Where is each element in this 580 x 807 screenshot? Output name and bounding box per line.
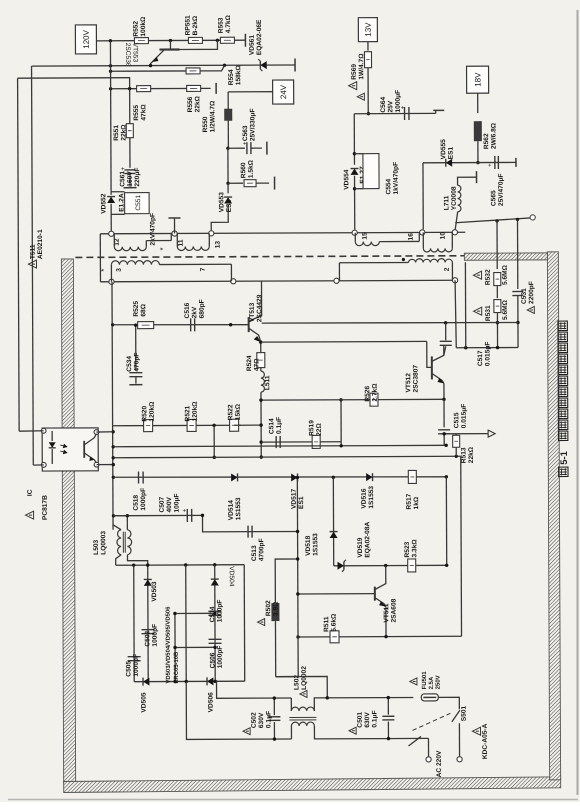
label IC PC817B — [25, 511, 33, 519]
svg-text:16: 16 — [408, 233, 415, 241]
svg-text:7: 7 — [200, 267, 207, 271]
pin 2 — [452, 278, 457, 283]
wire bridge rail VD504 — [214, 565, 217, 681]
resistor R562 fusible — [477, 93, 479, 113]
wire R502 feed — [275, 559, 298, 602]
node box 24V — [273, 80, 294, 104]
svg-text:VD505: VD505 — [141, 692, 148, 713]
resistor R531 startup — [496, 286, 498, 298]
wire R517 to R523 vertical — [445, 477, 447, 565]
wire fuse to switch corner — [438, 697, 459, 709]
wire feedback vertical left A — [32, 66, 34, 465]
wire R560 row — [227, 148, 229, 183]
wire VD555 to pin 16 — [422, 163, 424, 230]
diode VD506 — [207, 677, 213, 685]
wire 24V to R550 — [228, 91, 272, 93]
svg-text:13: 13 — [215, 241, 222, 249]
wire base net down — [297, 594, 299, 637]
svg-text:S501: S501 — [461, 705, 468, 721]
wire R502 link — [297, 637, 299, 677]
wire bridge box left edge — [185, 565, 188, 681]
winding 16-10 — [422, 232, 424, 248]
resistor R522 — [230, 419, 239, 431]
optocoupler IC PC817B — [42, 428, 98, 471]
svg-text:VD554: VD554 — [343, 169, 350, 190]
capacitor C505 — [128, 656, 141, 658]
resistor R520 — [144, 420, 153, 432]
switch S501 right pole — [452, 710, 460, 722]
wire divider drop — [213, 425, 215, 457]
arrow out — [488, 430, 495, 437]
wire opto-base vertical — [296, 477, 299, 593]
diode VD519 — [338, 562, 344, 570]
svg-text:C551: C551 — [135, 195, 142, 211]
wire secondary ground row — [456, 347, 518, 349]
switch linkage dashed — [412, 713, 450, 730]
svg-text:KDC-A05-A: KDC-A05-A — [482, 723, 489, 759]
wire VD519 row — [334, 564, 447, 566]
pin 16 — [420, 230, 425, 235]
wire bridge rail VD503 — [147, 571, 149, 682]
wire AC bottom line — [186, 681, 291, 739]
wire R513 row with arrow — [444, 433, 488, 435]
wire feedback line lower — [18, 78, 130, 89]
svg-text:R5023.9Ω: R5023.9Ω — [265, 600, 279, 616]
winding 3-7 primary — [110, 265, 112, 282]
winding 1-2 — [402, 258, 405, 261]
resistor R511 — [330, 631, 339, 643]
wire bridge left rail C505 — [133, 565, 136, 681]
resistor R555 — [137, 86, 151, 92]
diode VD505 — [143, 678, 149, 686]
svg-text:PC817B: PC817B — [42, 495, 49, 520]
wire end bar after R553 — [244, 34, 246, 47]
resistor R519 — [312, 435, 320, 448]
resistor RP551 — [188, 37, 202, 43]
wire 18V row — [423, 161, 516, 163]
svg-text:5.6MΩ: 5.6MΩ — [502, 264, 509, 285]
diode VD518 — [330, 532, 338, 538]
wire startup feed — [455, 218, 530, 223]
capacitor C518 — [138, 471, 140, 483]
wire mid row C — [113, 456, 460, 458]
wire pin2 down — [455, 280, 456, 348]
svg-text:C502630V0.1μF: C502630V0.1μF — [251, 711, 273, 728]
svg-text:24V: 24V — [279, 84, 288, 99]
inductor L503 — [117, 530, 121, 555]
capacitor C534 — [135, 325, 137, 370]
wire AC top line — [217, 681, 292, 698]
pin 10 — [452, 230, 457, 235]
svg-text:VD504: VD504 — [228, 566, 235, 587]
resistor R551 — [129, 89, 131, 124]
capacitor C504 — [208, 610, 221, 612]
label KDC-A05-A — [472, 727, 480, 735]
wire mid row B — [113, 445, 446, 446]
svg-text:3: 3 — [116, 268, 123, 272]
pin 11 termination — [174, 219, 176, 234]
main primary bus vertical — [112, 282, 113, 530]
transistor VT553 — [169, 41, 171, 50]
wire end bar after VD561 — [294, 58, 296, 71]
fuse FU501 — [421, 694, 438, 701]
svg-text:R55122kΩ: R55122kΩ — [113, 124, 127, 141]
capacitor C516 — [190, 318, 192, 331]
svg-text:+: + — [488, 163, 492, 169]
pin 15 — [352, 230, 357, 235]
switch S501 left pole — [408, 736, 421, 746]
wire diode row main — [113, 476, 446, 478]
resistor R550 fusible — [227, 92, 229, 109]
resistor R523 — [408, 559, 416, 572]
resistor R560 — [228, 182, 243, 184]
node box 13V — [358, 18, 377, 42]
shield hatch top-right band — [464, 253, 547, 260]
wire bridge bottom row — [134, 680, 244, 682]
svg-text:11: 11 — [178, 239, 185, 246]
shield hatch bottom band — [64, 777, 561, 793]
svg-text:R52215kΩ: R52215kΩ — [227, 403, 241, 420]
capacitor C561 — [129, 138, 131, 168]
svg-text:VD552: VD552 — [100, 193, 107, 214]
resistor R513 — [455, 434, 457, 436]
diode VD552 — [110, 192, 112, 195]
capacitor C554 box — [354, 153, 362, 155]
capacitor C506 — [209, 638, 222, 640]
svg-text:R532: R532 — [485, 269, 492, 285]
wire bridge box right edge — [243, 565, 246, 681]
resistor R569 — [367, 42, 369, 51]
label T511 — [28, 260, 36, 268]
capacitor C502 — [273, 698, 275, 715]
svg-text:120V: 120V — [82, 29, 91, 48]
wire R520 row — [113, 424, 241, 427]
figure caption — [559, 467, 568, 476]
svg-text:10: 10 — [440, 232, 447, 240]
resistor R554 — [186, 68, 200, 74]
transformer T511 bottom former line — [100, 280, 455, 282]
winding 15-16 — [354, 233, 356, 242]
svg-text:13V: 13V — [364, 22, 373, 37]
capacitor C507 — [186, 509, 188, 522]
capacitor C563 — [228, 147, 245, 149]
wire feedback line upper — [32, 65, 292, 66]
resistor R502 fusible — [272, 604, 279, 621]
zener VD561 — [260, 61, 266, 69]
wire C507 row — [113, 514, 202, 516]
transformer core dashed line — [75, 256, 464, 258]
svg-text:+: + — [182, 508, 186, 514]
capacitor C515 — [443, 399, 445, 427]
diode VD517 — [291, 473, 297, 481]
wire 13V output row — [354, 112, 435, 114]
node box 120V — [75, 25, 96, 54]
wire divider row — [111, 87, 211, 89]
svg-text:*: * — [99, 269, 108, 272]
wire VT512 drive — [261, 340, 427, 343]
svg-text:18V: 18V — [473, 72, 482, 87]
svg-text:VD5141S1553: VD5141S1553 — [228, 497, 243, 520]
transistor VT513 — [248, 317, 250, 332]
diode VD514 — [231, 473, 237, 481]
resistor R552 — [134, 38, 148, 44]
capacitor C531 — [517, 219, 519, 289]
page edge shading — [577, 10, 579, 795]
svg-text:R51322kΩ: R51322kΩ — [460, 446, 474, 463]
svg-text:*: * — [158, 247, 167, 250]
svg-text:VD5161S1553: VD5161S1553 — [361, 486, 376, 509]
capacitor C517 — [445, 323, 447, 340]
resistor R517 — [408, 470, 416, 483]
wire opto pin connections — [19, 430, 44, 432]
capacitor C501 — [387, 698, 389, 715]
wire R526 row — [261, 398, 444, 401]
capacitor C565 — [494, 156, 496, 169]
pin 7 — [231, 279, 236, 284]
transistor VT512 — [431, 356, 433, 379]
wire bridge top row — [116, 564, 244, 567]
diode VD503 — [144, 579, 152, 585]
inductor L511 — [260, 367, 262, 371]
svg-text:L511: L511 — [264, 375, 271, 390]
wire C514 row — [261, 441, 341, 443]
resistor R525 — [138, 322, 154, 329]
wire hatch stub — [464, 262, 466, 347]
wire collector row — [262, 322, 518, 324]
wire R554 branch — [111, 70, 187, 72]
pin 13 — [209, 231, 214, 236]
wire bridge mid links — [175, 612, 215, 614]
transformer T511 left edge — [99, 234, 101, 282]
inductor L502 line filter — [290, 698, 292, 711]
resistor R521 — [187, 419, 196, 431]
diode VD555 — [446, 159, 452, 167]
svg-text:IC: IC — [27, 489, 34, 496]
resistor R556 — [187, 85, 201, 91]
main 120V rail vertical — [109, 41, 112, 192]
capacitor C551 box — [111, 191, 124, 193]
diode VD554 branch — [353, 114, 355, 165]
inductor L711 — [458, 177, 477, 185]
wire emitter row — [298, 635, 461, 638]
resistor R532 startup — [496, 221, 498, 269]
resistor R526 — [370, 393, 378, 406]
wire end bar after R556 — [215, 83, 217, 94]
svg-text:R55622kΩ: R55622kΩ — [187, 95, 201, 112]
svg-text:R55547kΩ: R55547kΩ — [133, 104, 147, 121]
capacitor C503 — [141, 629, 154, 631]
diode VD553 — [227, 183, 229, 193]
svg-text:5-1: 5-1 — [559, 450, 570, 464]
capacitor C514 — [275, 436, 277, 448]
winding 12-11 — [113, 234, 115, 247]
svg-text:2: 2 — [444, 267, 451, 271]
pin 12 — [109, 231, 114, 236]
svg-text:RP551B-2kΩ: RP551B-2kΩ — [185, 15, 199, 36]
svg-text:R531: R531 — [485, 305, 492, 321]
wire R502 to AC line — [276, 676, 328, 698]
wire base drive row — [113, 324, 249, 325]
capacitor C513 — [247, 526, 249, 538]
pin 11 — [172, 231, 177, 236]
svg-text:AC 220V: AC 220V — [436, 750, 443, 777]
wire L503 right winding taps — [126, 516, 128, 530]
wire 120V rail horizontal — [96, 39, 245, 42]
wire L503 left down — [116, 555, 122, 566]
svg-text:C5140.1μF: C5140.1μF — [268, 417, 282, 434]
wire right loop vertical — [460, 456, 463, 636]
wire feedback vertical left B — [18, 78, 20, 431]
transistor VT511 — [374, 587, 376, 601]
pin hidden mid — [334, 278, 339, 283]
transformer T511 top former line — [100, 232, 465, 234]
wire VD518 branch — [332, 477, 334, 565]
svg-text:VD503: VD503 — [151, 581, 158, 602]
node C563 junction — [226, 147, 229, 150]
capacitor C564 — [404, 107, 406, 120]
wire R522 to L511 line — [241, 424, 261, 426]
resistor R524 — [260, 342, 262, 352]
shield hatch left band — [61, 259, 75, 783]
node box 18V — [467, 66, 489, 93]
svg-text:C501630V0.1μF: C501630V0.1μF — [357, 710, 379, 727]
pin 3 — [109, 279, 114, 284]
wire C513 branch — [202, 515, 297, 532]
resistor R553 — [220, 37, 234, 43]
diode VD516 — [366, 473, 372, 481]
diode VD504 — [211, 579, 219, 585]
svg-text:15: 15 — [362, 232, 369, 240]
shield hatch right band — [547, 252, 560, 780]
svg-text:VD5181S1553: VD5181S1553 — [305, 533, 320, 556]
winding 11-13 — [176, 233, 178, 246]
svg-text:5.6MΩ: 5.6MΩ — [502, 299, 509, 320]
svg-text:VD506: VD506 — [208, 692, 215, 713]
